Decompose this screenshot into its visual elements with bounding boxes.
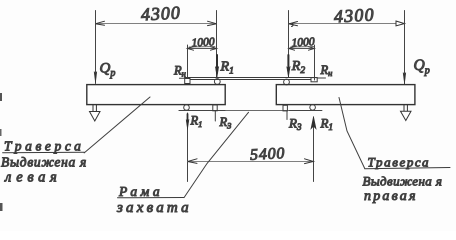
svg-text:4300: 4300 — [140, 2, 181, 24]
force R1 bottom-left arrow — [187, 114, 189, 123]
scan mark left edge upper — [0, 93, 2, 101]
arrowhead right of 1000 left — [211, 47, 217, 51]
dimension line 1000 right — [289, 48, 315, 50]
svg-text:Выдвижена я: Выдвижена я — [1, 155, 87, 170]
bottom bar darker segment left — [179, 110, 225, 112]
svg-text:Траверса: Траверса — [368, 155, 431, 170]
right traverse beam — [276, 85, 415, 105]
extension line right of 1000 right — [314, 45, 316, 80]
arrowhead left of 1000 right — [289, 47, 295, 51]
svg-text:R1: R1 — [320, 116, 333, 133]
svg-text:правая: правая — [364, 189, 418, 204]
grab frame top bar upper line — [185, 77, 318, 79]
arrowhead left of 4300 left — [95, 21, 104, 25]
hook stub left — [179, 77, 184, 79]
arrowhead right of 5400 — [305, 159, 314, 164]
bottom hook tail right — [286, 111, 288, 120]
force R1 top extension line — [216, 11, 218, 78]
leader line of left label — [84, 97, 150, 153]
hook square left — [185, 79, 190, 84]
arrowhead right of 4300 left — [208, 21, 217, 25]
bottom bar darker segment right — [290, 110, 322, 112]
svg-text:5400: 5400 — [250, 145, 286, 164]
svg-text:4300: 4300 — [333, 4, 375, 26]
svg-text:захвата: захвата — [116, 200, 192, 216]
force line Qp right — [404, 11, 406, 85]
dimension line 4300 right — [289, 23, 405, 25]
svg-text:Rн: Rн — [173, 64, 186, 79]
force R2 top arrow — [287, 55, 289, 70]
arrowhead left of 5400 — [188, 159, 197, 164]
roller bottom right — [310, 105, 316, 111]
force R1 top arrow — [216, 55, 218, 70]
scan mark left edge lower — [0, 203, 3, 211]
leader line of rama zakhvata label — [184, 112, 249, 197]
force R1 bottom-right arrow (pointing up) — [311, 117, 316, 129]
arrowhead right of 4300 right — [396, 21, 404, 26]
bottom hook square right — [283, 105, 287, 111]
dimension line 4300 left — [96, 23, 217, 25]
left traverse beam — [87, 85, 225, 105]
underline of 1000 left — [189, 46, 215, 48]
roller top right — [284, 79, 290, 85]
svg-text:Qp: Qp — [414, 57, 430, 77]
extension line left of 1000 left — [187, 45, 189, 78]
bottom hook tail left — [214, 111, 216, 121]
leader line of right label — [339, 98, 365, 169]
arrowhead Qp right — [403, 73, 406, 84]
grab frame top bar lower line — [190, 79, 311, 81]
grab frame bottom bar — [179, 110, 322, 112]
svg-text:Rн: Rн — [320, 63, 333, 78]
svg-text:Траверса: Траверса — [4, 139, 84, 154]
svg-text:R1: R1 — [220, 60, 234, 77]
support symbol right (lines + hollow triangle) — [403, 105, 405, 112]
roller bottom left — [184, 105, 190, 111]
svg-text:R3: R3 — [288, 116, 302, 133]
hook stub right — [317, 77, 325, 79]
bottom hook square left — [213, 105, 217, 111]
force line Qp left (also extension line of left 4300 dim) — [95, 11, 97, 84]
dimension line 1000 left — [188, 48, 217, 50]
force R2 top extension line — [288, 11, 290, 78]
scan mark left edge middle — [0, 129, 2, 136]
roller top left — [214, 79, 220, 85]
svg-text:левая: левая — [4, 170, 61, 186]
arrowhead Qp left — [94, 72, 97, 83]
svg-text:R2: R2 — [291, 59, 306, 76]
svg-text:Рама: Рама — [118, 184, 163, 199]
arrowhead left of 1000 left — [187, 47, 193, 51]
svg-text:Qp: Qp — [100, 61, 116, 80]
force R1 bottom-left line (also 5400 extension) — [187, 113, 189, 182]
force R1 bottom-right line (also 5400 extension) — [313, 117, 315, 182]
svg-text:R3: R3 — [219, 115, 232, 131]
underline of 1000 right — [291, 46, 315, 48]
svg-text:1000: 1000 — [191, 36, 215, 49]
hook square right — [311, 78, 317, 82]
svg-text:R1: R1 — [190, 114, 203, 130]
svg-text:Выдвижена я: Выдвижена я — [363, 174, 443, 189]
arrowhead right of 1000 right — [309, 47, 315, 51]
dimension line 5400 — [188, 161, 314, 163]
svg-text:1000: 1000 — [291, 36, 315, 49]
support symbol left (lines + hollow triangle) — [92, 105, 94, 112]
arrowhead left of 4300 right — [289, 22, 298, 27]
